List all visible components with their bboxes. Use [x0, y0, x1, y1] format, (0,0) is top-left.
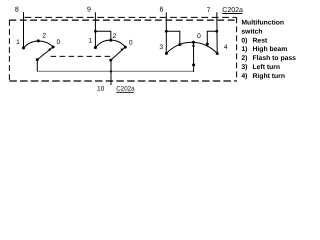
- mechanical coupling dashed link S1-S2: [51, 55, 112, 57]
- svg-text:1: 1: [88, 38, 92, 45]
- common pole bus (gray): [37, 70, 193, 72]
- svg-text:1): 1): [241, 46, 247, 53]
- switch S3 contact 3 dot: [165, 52, 168, 55]
- svg-text:4): 4): [241, 73, 247, 80]
- switch S3 pole dot: [192, 63, 195, 66]
- switch S2 wiper arm: [111, 47, 126, 60]
- bus junction dot: [110, 70, 112, 72]
- switch S3 mid-left contact dot: [178, 43, 181, 46]
- svg-text:9: 9: [87, 7, 91, 14]
- pin 7 wire: [216, 12, 218, 53]
- svg-text:3): 3): [241, 64, 247, 71]
- multifunction switch dashed box: top border line A: [25, 16, 237, 18]
- switch S2 contact 1 dot: [94, 46, 97, 49]
- pin 9 junction dot: [94, 30, 97, 33]
- switch S1 contact arc: [24, 41, 54, 48]
- switch S3 wiper arm: [193, 42, 195, 65]
- svg-text:Right turn: Right turn: [253, 73, 285, 80]
- switch S1 pole wire to bus: [36, 60, 38, 72]
- pin 9 branch wire to contact 2: [95, 31, 110, 40]
- switch S2 pole wire down to pin 10: [110, 60, 112, 85]
- multifunction switch dashed box: left border: [8, 20, 10, 81]
- switch S3 wiper arrowhead: [192, 44, 195, 47]
- multifunction switch dashed box: bottom border: [9, 80, 236, 82]
- svg-text:1: 1: [16, 39, 20, 46]
- switch S3 contact arc: [166, 42, 217, 53]
- switch S1 pole dot: [36, 58, 39, 61]
- switch S1 wiper arm: [37, 47, 53, 60]
- switch S2 contact arc: [96, 40, 126, 48]
- svg-text:2: 2: [42, 33, 46, 40]
- switch S2 contact 2 dot: [109, 39, 112, 42]
- svg-text:High beam: High beam: [253, 46, 288, 53]
- svg-text:switch: switch: [241, 29, 262, 36]
- switch S3 mid-right contact dot: [206, 43, 209, 46]
- pin 6 junction dot: [165, 30, 168, 33]
- pin 7 branch wire to mid-right contact: [207, 31, 217, 44]
- svg-text:0: 0: [129, 39, 133, 46]
- switch S1 contact 1 dot: [22, 47, 25, 50]
- svg-text:Flash to pass: Flash to pass: [253, 55, 297, 62]
- svg-text:4: 4: [224, 44, 228, 51]
- svg-text:2): 2): [241, 55, 247, 62]
- svg-text:Left turn: Left turn: [253, 64, 281, 71]
- multifunction switch dashed box: right border: [236, 17, 238, 81]
- pin 6 wire: [165, 12, 167, 53]
- connector label C202a top underline: [222, 13, 242, 15]
- svg-text:0: 0: [197, 33, 201, 40]
- svg-text:0: 0: [56, 39, 60, 46]
- switch S1 contact 0 dot: [52, 46, 55, 49]
- pin 8 wire: [23, 12, 25, 48]
- svg-text:8: 8: [15, 7, 19, 14]
- switch S2 pole dot: [109, 59, 112, 62]
- svg-text:Multifunction: Multifunction: [241, 20, 284, 27]
- svg-text:2: 2: [112, 33, 116, 40]
- svg-text:7: 7: [207, 7, 211, 14]
- svg-text:C202a: C202a: [116, 86, 135, 93]
- switch S2 contact 0 dot: [124, 46, 127, 49]
- svg-text:0): 0): [241, 37, 247, 44]
- pin 6 branch wire to mid-left contact: [166, 31, 180, 44]
- switch S3 contact 0 dot: [192, 41, 195, 44]
- switch S3 contact 4 dot: [216, 52, 219, 55]
- switch S1 wiper arrowhead: [48, 48, 51, 51]
- switch S3 pole wire to bus: [193, 65, 195, 72]
- svg-text:Rest: Rest: [253, 37, 268, 44]
- connector label C202a bottom underline: [116, 91, 133, 93]
- svg-text:6: 6: [160, 7, 164, 14]
- multifunction switch dashed box: top border line B: [9, 19, 236, 21]
- switch S1 contact 2 dot: [37, 39, 40, 42]
- switch S2 wiper arrowhead: [120, 48, 123, 51]
- svg-text:3: 3: [159, 44, 163, 51]
- svg-text:10: 10: [97, 86, 105, 93]
- pin 9 wire: [94, 12, 96, 47]
- pin 7 junction dot: [215, 30, 218, 33]
